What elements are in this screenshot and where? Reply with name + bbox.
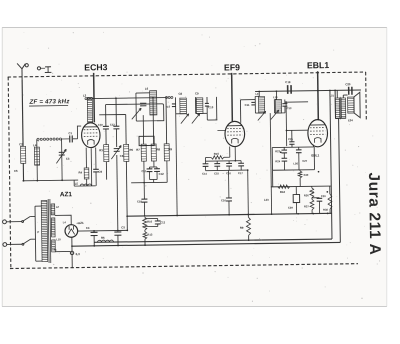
wire EF9 lead [231, 73, 234, 121]
text ZF = 473 kHz [28, 98, 70, 106]
oscillator coil L3 [83, 93, 93, 122]
svg-text:C11: C11 [141, 169, 146, 173]
svg-text:C3: C3 [66, 157, 70, 161]
wire detector out [285, 102, 309, 146]
svg-text:R12: R12 [280, 190, 286, 194]
B+ line from rectifier [77, 216, 127, 231]
svg-text:EBL1: EBL1 [307, 60, 330, 70]
capacitor C12 [110, 122, 120, 128]
output transformer L21 [329, 90, 345, 119]
wire [36, 139, 39, 180]
transformer secondary heater [52, 240, 58, 252]
svg-text:C12: C12 [159, 172, 165, 176]
svg-text:R9: R9 [168, 147, 172, 151]
capacitor C12a [149, 167, 164, 183]
switch S2 [22, 239, 36, 245]
pilot lamp 6,3V [55, 251, 80, 268]
ground bus left [22, 179, 78, 182]
svg-text:C10: C10 [208, 105, 214, 109]
svg-text:C20: C20 [345, 82, 351, 86]
wire feedback [272, 170, 274, 187]
svg-text:L10: L10 [273, 95, 278, 99]
resistor R40 [298, 170, 309, 187]
tube ECH3 (U1) [81, 123, 100, 148]
svg-text:R16: R16 [147, 220, 152, 224]
svg-text:L26: L26 [293, 161, 298, 165]
wire antenna down [21, 79, 24, 146]
resistor R16 and R13 ladder [143, 217, 153, 245]
wire EF9 anode [240, 100, 255, 123]
rectifier tube AZ1 (U4) [63, 220, 84, 237]
capacitor C20 [345, 82, 352, 95]
svg-text:L5: L5 [75, 182, 79, 186]
wire pins ECH3 [86, 148, 96, 186]
padder line with coil L5 [74, 180, 96, 186]
ground rail 3 [72, 242, 340, 246]
wire [263, 113, 272, 214]
detector capacitor row C14-C17 [202, 157, 248, 176]
capacitor C12b [145, 218, 166, 226]
svg-text:C9: C9 [98, 170, 102, 174]
wire AZ1 cathode down [71, 237, 73, 251]
svg-text:L23: L23 [264, 198, 269, 202]
resistor R38 [323, 186, 332, 213]
wire HV tap to AZ1 [55, 215, 71, 225]
wire grid feed [77, 126, 81, 139]
resistor R9 vertical [240, 214, 251, 240]
transformer secondary mid [51, 218, 61, 242]
B+ rail 1 [127, 213, 331, 216]
svg-text:C17: C17 [238, 171, 243, 175]
svg-text:R4: R4 [78, 171, 82, 175]
svg-text:ZF = 473 kHz: ZF = 473 kHz [28, 98, 70, 106]
svg-text:C8: C8 [178, 92, 182, 96]
wire ECH3 lead [93, 73, 96, 122]
svg-text:AZ1: AZ1 [60, 191, 73, 198]
wire bus D [142, 115, 145, 182]
loudspeaker [343, 92, 360, 122]
svg-text:C11: C11 [245, 103, 250, 107]
capacitor C29 box [288, 186, 300, 213]
trimmer capacitor C3 [56, 149, 70, 163]
IF1 coupling coil dashes [165, 96, 172, 98]
top line TL1 [85, 97, 165, 100]
capacitor C9 [93, 169, 103, 186]
resistor R4 [78, 168, 89, 186]
svg-text:L10: L10 [56, 237, 61, 241]
transformer core [48, 199, 51, 263]
antenna [17, 63, 28, 79]
svg-text:L6: L6 [145, 87, 149, 91]
svg-text:C5: C5 [121, 225, 125, 229]
wire bus A [106, 105, 107, 180]
svg-text:R6: R6 [101, 236, 105, 240]
resistor R8 [151, 144, 161, 161]
wire EF9 pins [230, 146, 236, 160]
capacitor C11a [141, 167, 152, 180]
tube EF9 (U2) [225, 121, 245, 146]
capacitor C18 [137, 183, 148, 216]
capacitor C19 [285, 80, 291, 94]
IF transformer 1 primary L7 [166, 92, 190, 216]
resistor R37 [304, 198, 314, 214]
svg-text:C30: C30 [321, 194, 326, 198]
svg-text:C15: C15 [214, 171, 219, 175]
trimmer capacitor C6 [111, 145, 124, 159]
wire anode loop [106, 104, 164, 122]
svg-text:C2: C2 [19, 142, 23, 146]
svg-text:Jura 211 A: Jura 211 A [365, 172, 383, 255]
capacitor C30 [312, 194, 327, 213]
wire V1 [330, 90, 332, 239]
wire screen line [99, 113, 125, 115]
svg-text:C6: C6 [120, 154, 124, 158]
wire [61, 139, 64, 180]
svg-text:R3: R3 [99, 148, 103, 152]
capacitor C10 [98, 123, 109, 129]
IF transformer 1 secondary L8 [191, 91, 214, 123]
svg-text:C19: C19 [285, 80, 291, 84]
mains terminal 1 [3, 220, 22, 224]
wire EBL1 lead [317, 71, 320, 120]
capacitor C1 series [61, 131, 77, 143]
tube EBL1 (U3) [308, 119, 328, 146]
coupling capacitor C25 [288, 130, 295, 147]
resistor R36 [304, 186, 314, 198]
svg-text:C12: C12 [160, 220, 165, 224]
wire bus F [166, 98, 167, 183]
svg-text:EF9: EF9 [224, 62, 240, 72]
AVC line [131, 181, 167, 184]
wire [22, 163, 24, 180]
svg-text:C29: C29 [288, 206, 293, 210]
svg-text:C6: C6 [14, 169, 18, 173]
svg-text:C4: C4 [86, 226, 90, 230]
wire [130, 183, 132, 216]
resistor R7 [136, 144, 146, 161]
top line TL2 [255, 90, 361, 91]
antenna coil L1 (dust core) [37, 138, 62, 140]
ground terminal symbol [37, 67, 51, 73]
svg-text:EBL1: EBL1 [311, 153, 319, 157]
svg-text:L24: L24 [348, 118, 353, 122]
padder box [139, 136, 154, 145]
svg-text:R7: R7 [136, 148, 140, 152]
resistor R10 [205, 152, 229, 160]
resistor R2 [33, 143, 40, 165]
svg-text:L4: L4 [33, 143, 37, 147]
filter capacitor C5 [114, 225, 125, 245]
svg-text:C13: C13 [287, 106, 292, 110]
svg-text:R9: R9 [240, 226, 244, 230]
chassis border (dashed) [7, 72, 368, 268]
wire bus C [126, 114, 127, 216]
svg-text:R24: R24 [275, 159, 280, 163]
transformer secondary HV [51, 204, 59, 215]
filter choke R6 [97, 236, 113, 243]
svg-text:R36: R36 [304, 193, 309, 197]
wire EF9 grid [207, 97, 225, 131]
svg-text:L3: L3 [83, 93, 87, 97]
power transformer primary winding [41, 201, 48, 262]
resistor R12 [271, 184, 331, 194]
IF transformer 2 primary L9 [244, 91, 265, 120]
svg-text:C14: C14 [202, 172, 207, 176]
svg-text:C7: C7 [167, 105, 171, 109]
wire V2 [335, 90, 340, 242]
filter capacitor C4 [86, 226, 98, 246]
capacitor C16b [221, 170, 233, 215]
svg-text:R37: R37 [304, 204, 309, 208]
svg-text:R23: R23 [275, 149, 280, 153]
wire [247, 170, 250, 214]
resistor R9a [164, 144, 173, 161]
B+ rail 2 [94, 239, 332, 242]
resistor R5 [124, 144, 134, 161]
wire bus B [116, 98, 118, 230]
svg-text:R13: R13 [147, 233, 152, 237]
switch S1 [22, 216, 36, 222]
resistor R3 [99, 145, 109, 162]
svg-text:C9: C9 [195, 91, 199, 95]
scan speckle noise [12, 27, 380, 305]
wire EBL1 pins [313, 145, 316, 170]
resistor R1 [19, 142, 26, 163]
cathode network EBL1 [272, 147, 314, 170]
svg-text:R8: R8 [156, 147, 160, 151]
svg-text:6,3: 6,3 [76, 252, 81, 256]
svg-text:C12: C12 [110, 123, 115, 127]
wire primary bracket [35, 206, 42, 261]
svg-text:C18: C18 [137, 199, 142, 203]
svg-text:C25: C25 [288, 137, 293, 141]
svg-text:R40: R40 [304, 173, 309, 177]
svg-text:R10: R10 [214, 152, 220, 156]
svg-text:R5: R5 [129, 148, 133, 152]
scan speckle noise 2 [23, 73, 361, 267]
IF transformer 2 secondary L10 [270, 91, 292, 119]
oscillator tuned circuit L6 [125, 86, 157, 121]
svg-text:C16: C16 [221, 198, 226, 202]
svg-text:C1: C1 [68, 131, 72, 135]
svg-text:R38: R38 [323, 208, 328, 212]
wire OT bottom [334, 117, 336, 119]
wire bus E [152, 98, 155, 167]
svg-text:C27: C27 [302, 159, 307, 163]
svg-text:ECH3: ECH3 [84, 62, 107, 72]
mains terminal 2 [3, 242, 22, 246]
svg-text:+AZ1: +AZ1 [76, 221, 84, 225]
